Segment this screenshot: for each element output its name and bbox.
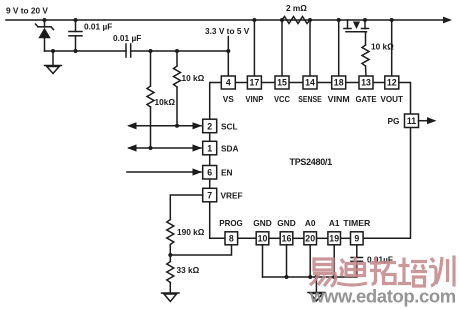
svg-text:10 kΩ: 10 kΩ [371,42,394,52]
svg-text:10kΩ: 10kΩ [155,97,176,107]
svg-text:VINM: VINM [328,94,350,104]
svg-text:www.edatop.com: www.edatop.com [309,286,456,307]
pin 1 box [203,141,217,155]
svg-text:VINP: VINP [245,94,263,104]
node divider junction [168,253,172,257]
wire VREF to divider [170,195,202,220]
wire VOUT riser [391,20,393,76]
ground symbol divider [162,293,180,302]
svg-text:SENSE: SENSE [298,94,322,104]
svg-text:14: 14 [305,78,315,88]
resistor R1 10k SDA pull-up [147,51,154,148]
wire SENSE riser [309,20,311,76]
pin 13 box [359,76,373,89]
transistor Q1 pass FET [344,20,369,32]
chip TPS2480/1 outline [210,83,411,239]
node rail-zener junction [43,18,47,22]
node rail-cap C1 junction [74,18,78,22]
svg-text:190 kΩ: 190 kΩ [177,227,205,237]
capacitor C1 0.01 uF [69,20,82,51]
node bus A1 [332,275,336,279]
pin 19 box [328,232,341,245]
wire A1 drop [333,245,335,277]
wire VINP riser [253,20,255,76]
pin 4 box [221,76,235,89]
node ground stub junction [51,49,55,53]
node bus ground stub [314,275,318,279]
wire GND pin16 drop [286,245,288,277]
resistor R3 2 mOhm sense [282,17,310,24]
svg-text:10 kΩ: 10 kΩ [182,73,205,83]
svg-text:8: 8 [229,234,234,244]
pin 10 box [256,232,269,245]
svg-text:SDA: SDA [221,143,239,153]
svg-text:17: 17 [250,78,260,88]
svg-text:15: 15 [277,78,287,88]
svg-text:12: 12 [387,78,397,88]
pin 14 box [303,76,317,89]
wire top supply rail [6,19,446,21]
capacitor C2 0.01 uF series [126,44,131,57]
svg-text:EN: EN [221,168,233,178]
node SCL pull-up junction [175,124,179,128]
resistor R5 190k [167,220,174,262]
svg-text:18: 18 [334,78,344,88]
pin 6 box [203,166,217,180]
svg-text:PG: PG [388,116,400,126]
wire PG output arrow [419,120,429,122]
arrowhead rail output right [443,17,452,24]
svg-text:13: 13 [361,78,371,88]
svg-text:VREF: VREF [221,190,243,200]
watermark chinese text [310,256,454,287]
node VOUT rail junction [390,18,394,22]
svg-text:16: 16 [282,234,292,244]
resistor R2 10k SCL pull-up [174,51,181,126]
svg-text:A1: A1 [329,218,340,228]
svg-text:4: 4 [226,78,231,88]
svg-text:20: 20 [305,234,315,244]
svg-text:GND: GND [253,218,271,228]
svg-text:7: 7 [207,190,212,200]
svg-text:GND: GND [277,218,295,228]
svg-text:3.3 V to 5 V: 3.3 V to 5 V [205,26,250,36]
pin 15 box [275,76,289,89]
svg-text:VS: VS [223,94,235,104]
pin 20 box [304,232,317,245]
zener diode D1 [36,20,54,51]
node VCC rail junction [280,18,284,22]
pin 11 box [405,114,419,128]
svg-text:6: 6 [207,168,212,178]
pin 16 box [280,232,293,245]
node FET source rail junction [363,18,367,22]
node bus GND16 [285,275,289,279]
arrowhead PG output [427,117,437,124]
wire mid rail right [131,50,229,52]
svg-text:11: 11 [407,116,416,126]
wire SDA with arrows [127,144,202,151]
svg-text:A0: A0 [305,218,316,228]
pin 18 box [332,76,346,89]
node SENSE rail junction [308,18,312,22]
node R2 top junction [175,49,179,53]
svg-text:PROG: PROG [219,218,243,228]
wire mid rail [45,50,127,52]
node bus A0 [308,275,312,279]
svg-text:0.01 µF: 0.01 µF [113,33,141,43]
wire A0 drop [309,245,311,277]
svg-text:19: 19 [329,234,339,244]
wire VS riser [227,37,229,77]
pin 7 box [203,188,217,202]
ground symbol input [45,51,62,74]
svg-text:GATE: GATE [356,94,377,104]
svg-text:33 kΩ: 33 kΩ [177,265,200,275]
pin 17 box [247,76,261,89]
svg-text:SCL: SCL [221,121,238,131]
wire EN with arrow [127,168,202,175]
resistor R4 10k gate [362,32,369,76]
node cap C1 bottom junction [74,49,78,53]
svg-text:VOUT: VOUT [380,94,403,104]
resistor R6 33k [167,262,174,294]
node VINM rail junction [337,18,341,22]
wire divider to PROG [170,245,231,255]
pin 9 box [351,232,364,245]
capacitor C3 timer 0.01uF [351,245,363,277]
svg-text:0.01 µF: 0.01 µF [84,22,112,32]
svg-text:TPS2480/1: TPS2480/1 [290,157,333,167]
wire VINM riser [338,20,340,76]
wire SCL with arrows [127,122,202,129]
node R1 top junction [149,49,153,53]
wire VCC riser [281,20,283,76]
pin 8 box [225,232,238,245]
svg-text:2: 2 [207,121,212,131]
ground symbol logic [308,277,325,301]
svg-text:9 V to 20 V: 9 V to 20 V [6,6,48,16]
pin 12 box [385,76,399,89]
svg-text:9: 9 [354,234,359,244]
svg-text:1: 1 [207,143,212,153]
wire ground bus [263,276,357,278]
node SDA pull-up junction [149,146,153,150]
svg-text:VCC: VCC [274,94,290,104]
wire GND pin10 drop [262,245,264,277]
node VINP rail junction [252,18,256,22]
svg-text:2 mΩ: 2 mΩ [286,3,307,13]
svg-text:10: 10 [258,234,268,244]
pin 2 box [203,119,217,133]
node VS riser junction [226,49,230,53]
svg-text:TIMER: TIMER [343,218,370,228]
